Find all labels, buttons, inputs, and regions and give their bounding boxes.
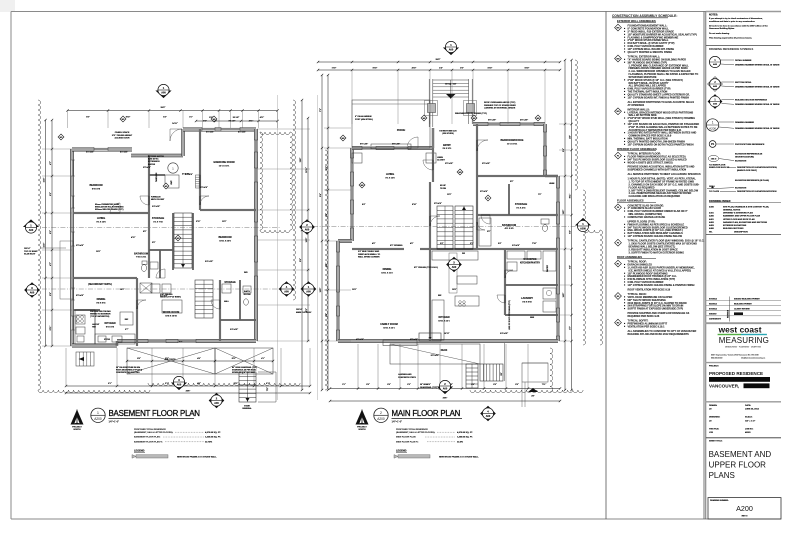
svg-text:INTERIOR FLOOR ASSEMBLIES: INTERIOR FLOOR ASSEMBLIES xyxy=(617,147,657,151)
svg-text:PROJECT:: PROJECT: xyxy=(709,366,719,368)
main top dimension chain xyxy=(317,59,561,71)
notes column divider xyxy=(605,12,607,520)
svg-text:W2: W2 xyxy=(537,118,540,120)
section marker main deck xyxy=(446,257,462,273)
svg-text:PLANS: PLANS xyxy=(709,471,735,480)
svg-text:DECK: DECK xyxy=(441,350,448,352)
svg-text:4'8": 4'8" xyxy=(569,135,572,139)
svg-text:NEW WOOD FRAME 2 X 6 STUDS WAL: NEW WOOD FRAME 2 X 6 STUDS WALL xyxy=(439,455,479,458)
basement deck sonotube note xyxy=(116,366,142,374)
svg-text:5'3": 5'3" xyxy=(50,292,52,296)
svg-text:8'4": 8'4" xyxy=(362,203,366,206)
svg-text:BATH: BATH xyxy=(244,290,250,293)
svg-text:NEW WOOD FRAME 2 X 6 STUDS WAL: NEW WOOD FRAME 2 X 6 STUDS WALL xyxy=(177,455,217,458)
svg-text:4'6": 4'6" xyxy=(197,357,201,360)
svg-text:ELEVATION: ELEVATION xyxy=(735,159,747,162)
svg-text:BASEMENT FLOOR PLAN %:: BASEMENT FLOOR PLAN %: xyxy=(134,440,163,443)
svg-text:SHEET TITLE:: SHEET TITLE: xyxy=(709,440,723,442)
project address redaction bar xyxy=(709,377,770,382)
basement bottom extension lines xyxy=(66,348,310,386)
svg-text:ELEVATION REFERENCE (IE: ELEVATION REFERENCE (IE xyxy=(735,152,763,155)
main kitchen counters xyxy=(432,251,479,340)
svg-text:DINING: DINING xyxy=(383,268,392,271)
svg-text:CONSTRUCTION ASSEMBLY SCHEDULE: CONSTRUCTION ASSEMBLY SCHEDULE: xyxy=(612,14,677,18)
revision table rows xyxy=(706,297,781,322)
svg-text:TOP OF BSMT: TOP OF BSMT xyxy=(24,251,38,253)
basement closet hatch xyxy=(196,175,201,188)
svg-text:2'6"x6'8": 2'6"x6'8" xyxy=(480,191,488,193)
main interior wall entry xyxy=(432,148,434,182)
svg-text:ACCESS HATCH: ACCESS HATCH xyxy=(148,155,164,158)
basement annotation crawl space xyxy=(112,131,133,140)
svg-text:NOTES:: NOTES: xyxy=(709,14,718,17)
svg-text:LAUNDRY: LAUNDRY xyxy=(521,297,533,300)
basement laundry fixtures xyxy=(151,284,171,293)
main right extension lines xyxy=(559,124,570,341)
main elevation note2 xyxy=(296,309,312,314)
main room label living xyxy=(385,173,395,179)
main stair width note xyxy=(439,131,457,136)
main interior stairs xyxy=(455,206,473,249)
svg-text:6'2": 6'2" xyxy=(50,230,52,234)
basement interior wall stair left xyxy=(172,213,174,270)
svg-text:8/5/2014: 8/5/2014 xyxy=(709,302,718,305)
svg-text:UPPER FLOOR: UPPER FLOOR xyxy=(709,461,767,470)
svg-text:W2: W2 xyxy=(423,118,426,120)
svg-text:3'11" CEILING HEIGHT: 3'11" CEILING HEIGHT xyxy=(112,135,133,137)
svg-text:FINISHED TOP OF STAIRS RISER: FINISHED TOP OF STAIRS RISER xyxy=(484,104,516,107)
main interior wall bedroomoffice left xyxy=(476,124,478,176)
svg-text:1,336.00 SQ. FT.: 1,336.00 SQ. FT. xyxy=(205,437,221,439)
project block rule xyxy=(706,362,781,364)
svg-text:A00: A00 xyxy=(713,85,718,88)
svg-text:(SECONDARY SUITE): (SECONDARY SUITE) xyxy=(88,283,112,286)
basement interior wall suite divider xyxy=(73,277,137,279)
svg-text:10'0": 10'0" xyxy=(120,289,125,291)
svg-text:LEGEND: LEGEND xyxy=(134,449,145,452)
sheet title xyxy=(709,450,772,480)
svg-text:west coast: west coast xyxy=(718,325,762,335)
svg-text:A201: A201 xyxy=(709,218,715,221)
svg-text:BUILDING PERMIT: BUILDING PERMIT xyxy=(734,303,753,305)
svg-text:3'8": 3'8" xyxy=(152,242,156,244)
symbol geodetic elevation reference xyxy=(708,152,777,172)
sheet title rule xyxy=(706,437,781,439)
main right dimension chain xyxy=(562,59,573,391)
svg-text:3. SOFFIT FINISH TO MATCH EXT: 3. SOFFIT FINISH TO MATCH EXTERIOR SIDIN… xyxy=(629,251,685,254)
svg-text:4'0"x4'0": 4'0"x4'0" xyxy=(520,119,528,122)
svg-text:A100: A100 xyxy=(709,205,715,208)
basement interior wall exercise left xyxy=(199,129,201,210)
svg-text:DETAIL NUMBER: DETAIL NUMBER xyxy=(735,59,752,62)
basement kitchen counter xyxy=(75,310,135,344)
svg-text:4'11": 4'11" xyxy=(131,236,136,239)
main exterior wall right jog xyxy=(545,175,558,177)
svg-text:A00: A00 xyxy=(449,48,454,51)
svg-text:11'1 X 9'11: 11'1 X 9'11 xyxy=(507,143,518,145)
svg-text:6/7/2014: 6/7/2014 xyxy=(709,308,718,311)
svg-text:A00: A00 xyxy=(284,290,289,293)
basement interior wall bedroom-living xyxy=(73,212,149,214)
svg-text:JD: JD xyxy=(709,420,712,422)
svg-text:A00: A00 xyxy=(177,383,182,386)
svg-text:REQUIRED PER BCBC 9.26: REQUIRED PER BCBC 9.26 xyxy=(628,315,660,318)
svg-text:4'11": 4'11" xyxy=(260,116,264,119)
svg-text:5'6": 5'6" xyxy=(510,181,514,183)
svg-text:2: 2 xyxy=(714,82,716,84)
basement plan revision cloud bottom xyxy=(38,390,150,393)
main bottom dimension chain xyxy=(329,384,561,402)
svg-text:A00: A00 xyxy=(306,290,311,293)
section marker basement bottom right xyxy=(209,393,225,409)
svg-text:W1: W1 xyxy=(60,137,63,139)
svg-text:A202: A202 xyxy=(709,221,715,224)
svg-text:6'0"x4'6": 6'0"x4'6" xyxy=(410,338,418,341)
main lower landing xyxy=(449,253,457,293)
svg-text:info@westcoastmeasuring.ca: info@westcoastmeasuring.ca xyxy=(741,357,766,360)
svg-text:5'11": 5'11" xyxy=(50,326,52,331)
svg-text:DRAWING NUMBER WHERE DETAIL IS: DRAWING NUMBER WHERE DETAIL IS TAKEN xyxy=(735,64,780,67)
svg-text:4'10": 4'10" xyxy=(412,67,417,70)
svg-text:7'10": 7'10" xyxy=(532,243,537,245)
svg-text:WORK ROOM: WORK ROOM xyxy=(163,311,179,314)
svg-text:8'11": 8'11" xyxy=(234,383,239,385)
svg-text:BASEMENT FLOOR PLAN:: BASEMENT FLOOR PLAN: xyxy=(134,436,161,439)
svg-text:LIVING: LIVING xyxy=(386,173,394,176)
svg-text:If you attempt to try to check: If you attempt to try to check contracto… xyxy=(709,17,763,20)
svg-text:A00: A00 xyxy=(443,387,448,390)
svg-text:4'1": 4'1" xyxy=(261,357,265,360)
svg-text:7R DN: 7R DN xyxy=(440,188,447,190)
svg-text:A200: A200 xyxy=(736,504,753,513)
svg-text:DRAWING NUMBER: DRAWING NUMBER xyxy=(735,121,755,124)
svg-text:DESIGNED:: DESIGNED: xyxy=(709,417,720,419)
basement bathroom2 fixtures xyxy=(222,284,251,305)
svg-text:conditions and data to prior t: conditions and data to prior to any cons… xyxy=(709,20,756,23)
svg-text:DW: DW xyxy=(462,253,465,255)
symbol drawing number xyxy=(706,119,779,131)
svg-text:5'2": 5'2" xyxy=(163,117,167,119)
basement room label bathroom xyxy=(134,253,148,259)
svg-text:GENERAL NOTES: GENERAL NOTES xyxy=(723,209,741,212)
basement exterior wall right xyxy=(254,129,257,341)
svg-text:HEIGHT (TYP AT BSMT): HEIGHT (TYP AT BSMT) xyxy=(160,296,181,299)
svg-text:A203: A203 xyxy=(709,224,715,227)
svg-text:ELEVATION: ELEVATION xyxy=(735,186,747,189)
svg-text:#307 Seymour Ave, Victoria #70: #307 Seymour Ave, Victoria #700 Vancouve… xyxy=(711,353,759,356)
svg-text:HWT: HWT xyxy=(171,180,173,185)
svg-text:PORCH: PORCH xyxy=(397,130,406,132)
svg-text:STORAGE: STORAGE xyxy=(515,203,528,206)
main window openings top xyxy=(362,122,534,150)
svg-text:GENERAL: GENERAL xyxy=(242,407,252,410)
basement interior wall bath xyxy=(159,250,161,278)
svg-text:5'10": 5'10" xyxy=(488,68,493,70)
basement attic access box xyxy=(140,283,152,293)
notes section CONCRETE SLAB ON GRADE: xyxy=(615,204,622,211)
svg-text:T.O PLATE: T.O PLATE xyxy=(709,190,720,193)
basement exterior wall top-left xyxy=(72,148,132,151)
basement room label bedroom2 xyxy=(218,236,231,242)
notes block xyxy=(709,14,769,40)
svg-text:10'11 X 13'1: 10'11 X 13'1 xyxy=(438,320,450,322)
svg-text:BASEMENT FLOOR PLAN: BASEMENT FLOOR PLAN xyxy=(109,409,201,418)
main bathroom fixtures xyxy=(479,218,549,246)
notes section TYPICAL ROOF: xyxy=(615,260,622,267)
svg-text:GARAGE PLAN, ELEVATIONS AND SE: GARAGE PLAN, ELEVATIONS AND SECTIONS xyxy=(723,221,768,224)
svg-text:JD: JD xyxy=(709,409,712,411)
svg-text:4'11": 4'11" xyxy=(325,263,328,268)
svg-text:AND ATTIC: AND ATTIC xyxy=(148,158,159,161)
svg-text:NORTH: NORTH xyxy=(358,429,366,431)
svg-text:T.O MAIN FLOOR: T.O MAIN FLOOR xyxy=(709,163,726,166)
svg-text:W2: W2 xyxy=(213,119,216,121)
svg-text:5'6": 5'6" xyxy=(203,121,207,123)
svg-text:ROOF OVERHANG ABOVE (TYP): ROOF OVERHANG ABOVE (TYP) xyxy=(484,101,516,104)
svg-text:6'11": 6'11" xyxy=(570,194,572,199)
svg-text:JUNE 30, 2014: JUNE 30, 2014 xyxy=(745,408,760,411)
svg-text:POST ANCHORED (TYP OF 4): POST ANCHORED (TYP OF 4) xyxy=(116,369,142,372)
svg-text:42" HIGH GUARDRAIL (TYP): 42" HIGH GUARDRAIL (TYP) xyxy=(232,366,257,369)
svg-text:6'4": 6'4" xyxy=(569,265,572,269)
basement dashed patio outline xyxy=(60,241,73,299)
main room label entry xyxy=(443,145,453,150)
svg-text:DRAWN:: DRAWN: xyxy=(709,404,718,407)
svg-text:10'9 X 10'10: 10'9 X 10'10 xyxy=(165,315,177,317)
main extra labels xyxy=(356,119,555,342)
svg-text:13'4": 13'4" xyxy=(299,158,302,163)
svg-text:5'0"x4'0": 5'0"x4'0" xyxy=(488,119,496,122)
main room label family room xyxy=(380,323,397,329)
svg-text:604.000.0000: 604.000.0000 xyxy=(711,358,722,360)
basement deck dim chain xyxy=(126,357,274,362)
svg-text:3'1": 3'1" xyxy=(189,117,193,119)
notes section TYPICAL CANTILEVER FLOOR (BAY WINDOW): 2X10 @ 16" O.C. xyxy=(615,239,622,246)
svg-text:(2X6 STUDS): (2X6 STUDS) xyxy=(442,133,454,135)
basement deck crawlspace x-braced xyxy=(127,348,273,374)
svg-text:2'8"x6'8": 2'8"x6'8" xyxy=(482,163,490,165)
main stair rails right xyxy=(469,79,473,124)
svg-text:2'4"x6'8": 2'4"x6'8" xyxy=(152,205,160,208)
svg-text:SPINDLES @ 4" O.C. MAX: SPINDLES @ 4" O.C. MAX xyxy=(232,371,256,374)
main interior wall bath left xyxy=(476,176,478,249)
svg-text:10'0": 10'0" xyxy=(320,288,322,293)
svg-text:ACCESS DOOR: ACCESS DOOR xyxy=(115,137,130,140)
svg-text:(MAIN FLOOR ONLY): (MAIN FLOOR ONLY) xyxy=(737,169,757,172)
svg-text:7'10 X 4'11: 7'10 X 4'11 xyxy=(136,256,147,259)
svg-text:5'1": 5'1" xyxy=(165,383,169,385)
svg-text:BEDROOM/OFFICE: BEDROOM/OFFICE xyxy=(501,139,524,142)
svg-text:A00: A00 xyxy=(30,291,35,294)
svg-text:A00: A00 xyxy=(486,415,491,418)
main wok kitchen counters xyxy=(507,251,556,271)
svg-text:3'0"x4'0": 3'0"x4'0" xyxy=(76,244,84,247)
main interior dim texts xyxy=(352,163,542,335)
svg-text:SUSPENDED CHANNELS WITH BATT I: SUSPENDED CHANNELS WITH BATT INSULATION xyxy=(628,169,687,172)
svg-text:5'1 X 4'11: 5'1 X 4'11 xyxy=(516,206,526,209)
svg-text:SOFFIT FINISH AT EXPOSED UNDER: SOFFIT FINISH AT EXPOSED UNDERSIDE (TYP) xyxy=(628,308,684,311)
svg-text:DATE/DES'N: DATE/DES'N xyxy=(709,318,721,321)
svg-text:2'2": 2'2" xyxy=(407,384,411,386)
main exterior wall left jog xyxy=(338,239,352,242)
basement exterior wall bottom xyxy=(117,339,256,342)
project city and redaction xyxy=(709,383,770,388)
basement plan revision cloud bottom right xyxy=(148,383,300,386)
svg-text:STORAGE: STORAGE xyxy=(224,281,236,284)
main stair rails left xyxy=(429,79,433,127)
svg-text:100'-0: 100'-0 xyxy=(711,159,717,161)
svg-text:MAIN FLR ELEV: MAIN FLR ELEV xyxy=(296,311,312,314)
svg-text:BATHROOM: BATHROOM xyxy=(134,253,148,256)
svg-text:P1: P1 xyxy=(487,198,489,200)
basement extension line between plans xyxy=(277,95,279,400)
svg-text:EXERCISE ROOM: EXERCISE ROOM xyxy=(213,161,234,164)
basement tag circle xyxy=(168,163,178,173)
svg-text:ELEVATION REFERENCE (IE PLAN): ELEVATION REFERENCE (IE PLAN) xyxy=(735,179,769,182)
main annotation stair note xyxy=(440,185,447,190)
main room label kitchen xyxy=(438,316,450,322)
svg-text:LIVING: LIVING xyxy=(97,217,105,220)
main plan title xyxy=(392,409,463,423)
svg-text:TBD: TBD xyxy=(92,327,96,329)
svg-text:16'5": 16'5" xyxy=(563,293,565,298)
svg-text:ISSUED: ISSUED xyxy=(709,314,717,316)
drawing number box xyxy=(708,498,781,519)
svg-text:STAIR/DECK AS PER BCBC: STAIR/DECK AS PER BCBC xyxy=(232,369,257,372)
svg-text:7'6": 7'6" xyxy=(538,194,542,196)
symbol photo reference xyxy=(709,141,765,148)
svg-text:STOVE: STOVE xyxy=(104,339,111,341)
svg-text:4'11": 4'11" xyxy=(249,120,254,123)
address lines xyxy=(711,353,766,359)
svg-text:10'11 X 10'0: 10'11 X 10'0 xyxy=(219,240,231,242)
main wall tags xyxy=(340,115,541,201)
basement wall bottom-left jog xyxy=(116,341,118,346)
svg-text:2'8"x6'8": 2'8"x6'8" xyxy=(200,187,208,189)
main room label bathroom xyxy=(502,224,516,230)
section marker main top xyxy=(443,48,459,56)
symbol detail marker xyxy=(709,56,779,67)
svg-text:4'11 X 8'0: 4'11 X 8'0 xyxy=(505,227,515,230)
svg-text:8'1": 8'1" xyxy=(108,383,112,385)
svg-text:PROPOSED TOTAL RESIDENCE: PROPOSED TOTAL RESIDENCE xyxy=(396,428,428,431)
svg-text:39'6": 39'6" xyxy=(186,391,191,393)
svg-text:DRAWING INDEX:: DRAWING INDEX: xyxy=(709,199,731,203)
main annotation ledger note xyxy=(358,250,381,259)
svg-text:36" HIGH: 36" HIGH xyxy=(420,384,429,386)
basement left exterior stair xyxy=(76,352,94,366)
svg-text:11'2": 11'2" xyxy=(44,243,46,248)
main porch steps xyxy=(352,153,436,163)
svg-text:W2: W2 xyxy=(342,138,345,140)
svg-text:1/2" GYPSUM BOARD ON BOTH FACE: 1/2" GYPSUM BOARD ON BOTH FACES PAINTED … xyxy=(628,143,694,146)
notes section INTERIOR WALLS: xyxy=(615,108,622,115)
basement title bubble xyxy=(91,408,105,422)
svg-text:PROPOSED TOTAL RESIDENCE: PROPOSED TOTAL RESIDENCE xyxy=(134,428,166,431)
svg-text:COMPACTED GRANULAR BASE: COMPACTED GRANULAR BASE xyxy=(628,216,666,219)
basement top extension lines xyxy=(68,111,278,129)
svg-text:AT OPENINGS: AT OPENINGS xyxy=(628,104,645,107)
svg-text:4'7": 4'7" xyxy=(49,161,52,165)
svg-text:DRAWING REFERENCE SYMBOLS: DRAWING REFERENCE SYMBOLS xyxy=(709,47,754,51)
svg-text:MECH CLOSET: MECH CLOSET xyxy=(151,199,165,201)
svg-text:WOOD I-JOISTS (SEE STRUCT. DWG: WOOD I-JOISTS (SEE STRUCT. DWGS) xyxy=(628,161,673,164)
svg-text:A200: A200 xyxy=(580,227,586,230)
svg-text:2: 2 xyxy=(380,411,382,415)
svg-text:9'2": 9'2" xyxy=(86,117,90,119)
section marker main title row xyxy=(480,406,496,422)
info table xyxy=(709,404,760,434)
svg-text:11'6": 11'6" xyxy=(222,221,227,223)
svg-text:STAIR: STAIR xyxy=(244,405,250,408)
svg-text:WEATHERPROOF LEDGER (TYP): WEATHERPROOF LEDGER (TYP) xyxy=(455,112,487,115)
basement room label bathroom2 xyxy=(244,290,251,296)
notes section TYPICAL INTERIOR FLOOR: xyxy=(615,152,622,159)
svg-text:BUILDING SECTION REFERENCE: BUILDING SECTION REFERENCE xyxy=(735,99,768,101)
svg-text:BEDROOM: BEDROOM xyxy=(218,236,231,239)
svg-text:PROVIDE 100 CFM FAN: PROVIDE 100 CFM FAN xyxy=(90,310,111,313)
svg-text:PROPOSED RESIDENCE: PROPOSED RESIDENCE xyxy=(709,371,763,376)
svg-text:ABOVE: ABOVE xyxy=(148,163,156,166)
main annotation handrail note xyxy=(420,384,438,389)
main annotation entry closet xyxy=(437,157,446,162)
svg-text:DATE:: DATE: xyxy=(745,404,751,407)
svg-text:4'2": 4'2" xyxy=(325,166,328,170)
basement elevation note xyxy=(24,248,66,256)
svg-text:W/D: W/D xyxy=(244,272,248,274)
main stairs lower flight xyxy=(437,206,453,249)
svg-text:1: 1 xyxy=(714,60,716,62)
svg-text:W1: W1 xyxy=(165,186,168,188)
basement room label work room xyxy=(163,311,179,317)
svg-text:A00: A00 xyxy=(713,63,718,66)
svg-text:DRAWING NUMBER:: DRAWING NUMBER: xyxy=(710,499,729,502)
drawing reference symbols rule xyxy=(706,45,781,47)
svg-text:ROOF VENTILATION PER BCBC 9.19: ROOF VENTILATION PER BCBC 9.19 xyxy=(628,289,671,292)
svg-text:DESCRIPTION: DESCRIPTION xyxy=(734,232,748,234)
basement right dimension chain xyxy=(299,99,309,391)
svg-text:5'2": 5'2" xyxy=(326,213,328,217)
svg-text:600mm BELOW GRADE (TYP): 600mm BELOW GRADE (TYP) xyxy=(95,208,124,211)
basement mech room xyxy=(165,175,179,188)
svg-text:9'4": 9'4" xyxy=(319,193,322,197)
svg-text:KITCHEN/PANTRY: KITCHEN/PANTRY xyxy=(520,261,541,264)
svg-text:8'10": 8'10" xyxy=(126,117,131,119)
svg-text:CLIENT REVIEW: CLIENT REVIEW xyxy=(734,309,750,311)
svg-text:A200: A200 xyxy=(94,417,102,421)
svg-text:4'0"x4'0": 4'0"x4'0" xyxy=(120,151,128,154)
basement interior wall bath bottom xyxy=(220,319,256,321)
svg-text:33.5%: 33.5% xyxy=(457,441,463,443)
basement bottom dimension chain xyxy=(65,382,311,394)
svg-text:4'0": 4'0" xyxy=(410,242,414,245)
main annotation landing note xyxy=(398,373,416,379)
svg-text:WOK/SPICE: WOK/SPICE xyxy=(523,259,537,261)
main interior wall storage top xyxy=(477,175,558,177)
main room label bedroomoffice xyxy=(501,139,524,145)
svg-text:4'0": 4'0" xyxy=(531,395,534,398)
svg-text:2'4"x6'8": 2'4"x6'8" xyxy=(512,244,520,247)
basement left dimension chain xyxy=(43,119,54,347)
main back stairs xyxy=(480,343,548,407)
main left extension lines xyxy=(324,128,351,341)
svg-text:6'10": 6'10" xyxy=(525,68,530,70)
svg-text:5'1 X 7'10: 5'1 X 7'10 xyxy=(153,221,163,223)
main porch outline xyxy=(352,100,430,148)
svg-text:5'1": 5'1" xyxy=(165,358,169,360)
svg-text:11'0": 11'0" xyxy=(447,194,452,196)
main annotation roof over xyxy=(484,101,516,110)
